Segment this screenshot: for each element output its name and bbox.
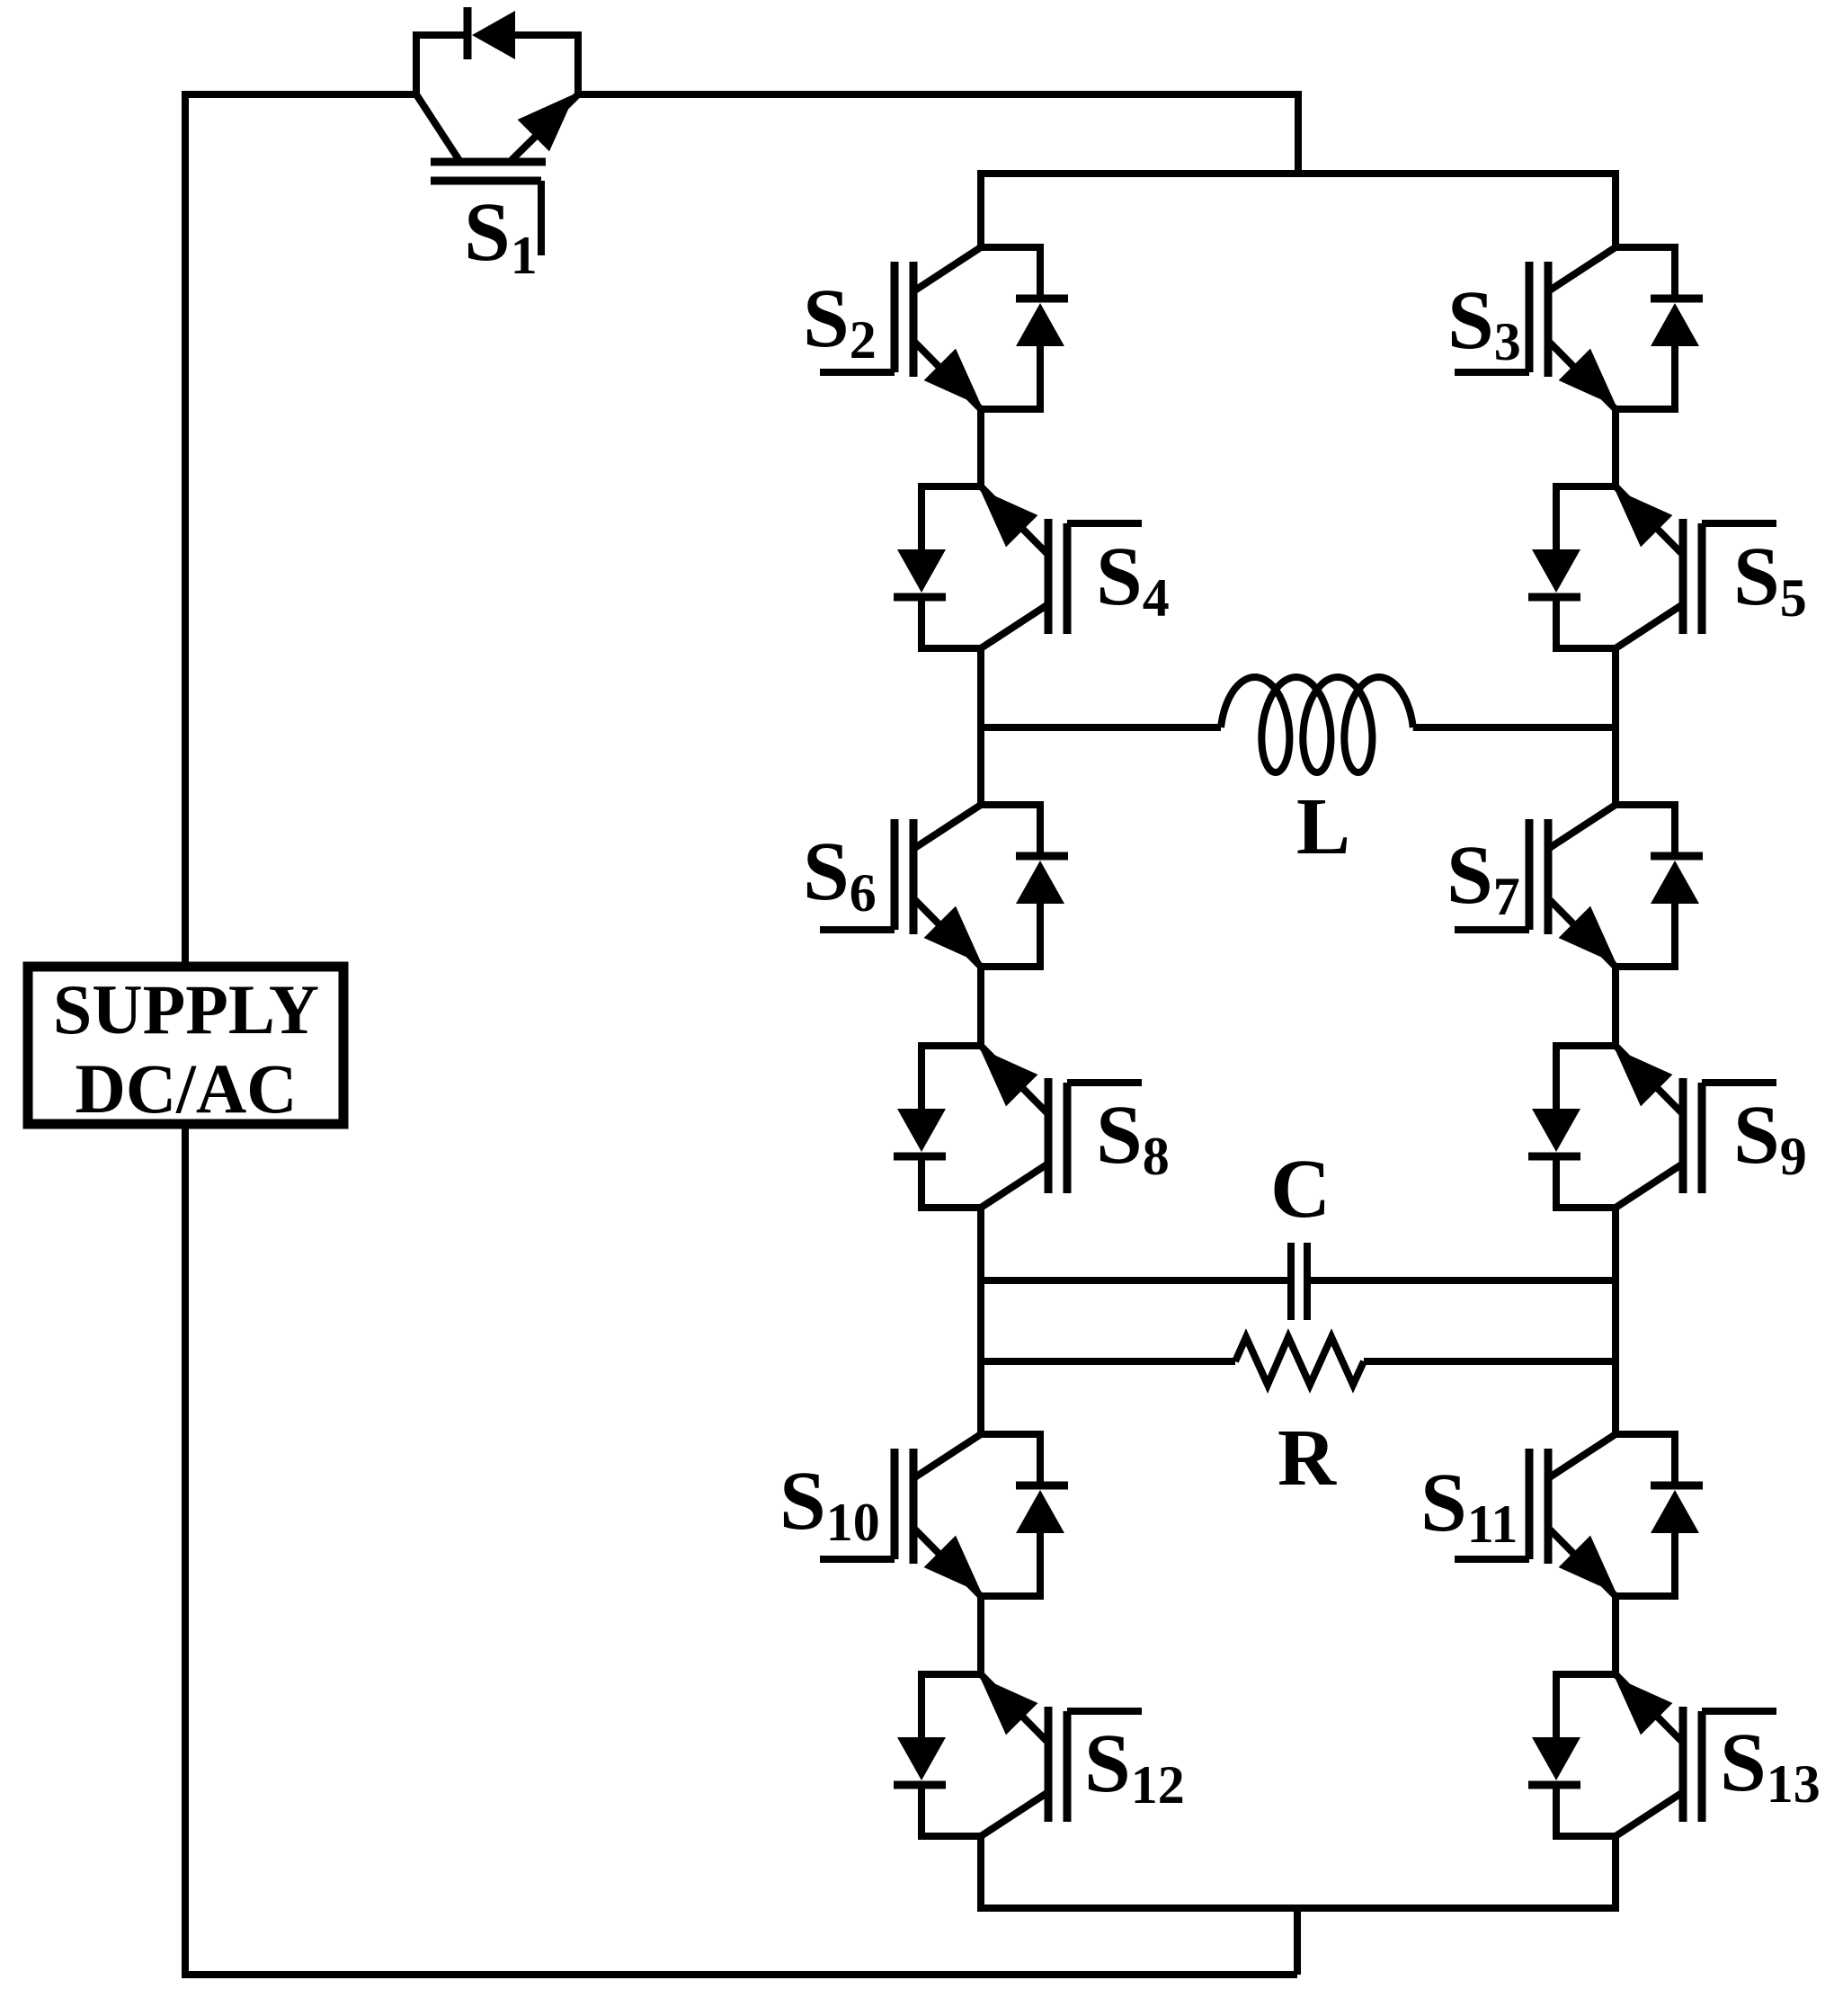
svg-text:S10: S10 xyxy=(779,1455,880,1552)
wire resistor row right segment xyxy=(1364,1358,1616,1365)
transistor S3 (IGBT with anti-parallel diode) xyxy=(1455,247,1703,409)
transistor S9 (IGBT with anti-parallel diode, inverted) xyxy=(1528,1046,1776,1208)
wire inductor row right segment xyxy=(1413,724,1616,731)
svg-text:S6: S6 xyxy=(803,825,877,923)
svg-text:S1: S1 xyxy=(464,186,538,285)
wire top-left from supply to S1 and left outer wire down to supply box xyxy=(185,94,416,968)
supply block SUPPLY DC/AC xyxy=(28,967,343,1124)
wire right column S5 through node to S7 xyxy=(1612,648,1619,805)
svg-text:S11: S11 xyxy=(1420,1457,1518,1554)
wire resistor row left segment xyxy=(981,1358,1235,1365)
wire right column S3 to S5 xyxy=(1612,409,1619,486)
inductor L xyxy=(1221,677,1413,772)
transistor S1 (IGBT with anti-parallel diode, horizontal on top wire) xyxy=(416,7,578,255)
transistor S8 (IGBT with anti-parallel diode, inverted) xyxy=(894,1046,1142,1208)
transistor S6 (IGBT with anti-parallel diode) xyxy=(820,805,1068,967)
wire right column S7 to S9 xyxy=(1612,967,1619,1046)
transistor S7 (IGBT with anti-parallel diode) xyxy=(1455,805,1703,967)
resistor R zigzag xyxy=(1235,1337,1364,1385)
wire top-right from S1 to jog down to upper rail xyxy=(578,94,1298,174)
wire capacitor row left segment xyxy=(981,1277,1287,1284)
svg-text:S4: S4 xyxy=(1096,531,1170,628)
svg-text:S13: S13 xyxy=(1720,1717,1821,1814)
wire upper rail connecting both column tops xyxy=(981,174,1616,247)
svg-text:S5: S5 xyxy=(1733,531,1807,628)
svg-text:L: L xyxy=(1296,782,1350,871)
wire capacitor row right segment xyxy=(1311,1277,1616,1284)
wire bottom return to supply and left outer wire up to supply box xyxy=(185,1124,1297,1975)
svg-text:DC/AC: DC/AC xyxy=(76,1049,298,1128)
wire left column S10 to S12 xyxy=(977,1596,984,1674)
capacitor C plates xyxy=(1291,1243,1307,1320)
transistor S12 (IGBT with anti-parallel diode, inverted) xyxy=(894,1674,1142,1836)
svg-text:S8: S8 xyxy=(1096,1089,1170,1186)
transistor S4 (IGBT with anti-parallel diode, inverted) xyxy=(894,486,1142,648)
wire right column S11 to S13 xyxy=(1612,1596,1619,1674)
svg-text:SUPPLY: SUPPLY xyxy=(53,970,319,1048)
wire left column S2 to S4 xyxy=(977,409,984,486)
transistor S13 (IGBT with anti-parallel diode, inverted) xyxy=(1528,1674,1776,1836)
wire inductor row left segment xyxy=(981,724,1221,731)
transistor S11 (IGBT with anti-parallel diode) xyxy=(1455,1434,1703,1596)
svg-text:R: R xyxy=(1278,1414,1337,1503)
transistor S5 (IGBT with anti-parallel diode, inverted) xyxy=(1528,486,1776,648)
svg-text:S3: S3 xyxy=(1447,274,1521,371)
wire left column S6 to S8 xyxy=(977,967,984,1046)
wire left column S8 through C and R nodes to S10 xyxy=(977,1208,984,1434)
wire right column S9 through C and R nodes to S11 xyxy=(1612,1208,1619,1434)
svg-text:S9: S9 xyxy=(1733,1089,1807,1186)
svg-text:S7: S7 xyxy=(1447,829,1520,926)
transistor S2 (IGBT with anti-parallel diode) xyxy=(820,247,1068,409)
wire bottom jog from rail down to return wire xyxy=(1294,1908,1301,1975)
svg-text:S12: S12 xyxy=(1084,1717,1185,1815)
svg-text:S2: S2 xyxy=(803,272,877,370)
transistor S10 (IGBT with anti-parallel diode) xyxy=(820,1434,1068,1596)
wire bottom rail connecting both column bottoms xyxy=(981,1836,1616,1908)
wire left column S4 through node to S6 xyxy=(977,648,984,805)
svg-text:C: C xyxy=(1270,1143,1331,1235)
